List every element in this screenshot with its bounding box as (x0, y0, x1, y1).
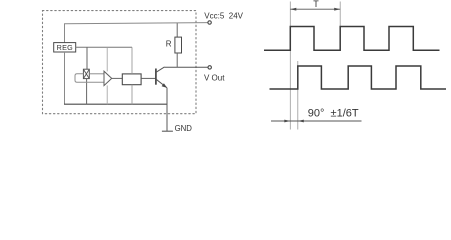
phase extension line B (297, 61, 299, 130)
resistor R (175, 37, 182, 53)
phase extension line A (289, 2, 291, 130)
svg-text:V Out: V Out (204, 73, 225, 82)
Vcc rail wire (65, 23, 208, 25)
wire hall bottom (86, 79, 88, 105)
wire amp input upper (89, 73, 104, 75)
regulator REG (54, 43, 76, 52)
svg-text:R: R (166, 40, 172, 49)
schmitt trigger U1 (122, 74, 141, 85)
Vcc terminal (208, 21, 211, 24)
op-amp A1 (104, 71, 112, 85)
wire amp output (112, 77, 123, 79)
svg-text:90° ±1/6T: 90° ±1/6T (308, 108, 359, 120)
V Out terminal (208, 66, 211, 69)
svg-text:REG: REG (57, 43, 74, 52)
hall element X1 (83, 69, 89, 78)
wire schmitt supply (131, 47, 133, 74)
ground rail wire (64, 103, 167, 105)
wire collector to V Out (165, 66, 208, 68)
wire REG output (76, 46, 132, 48)
svg-text:T: T (313, 0, 319, 9)
transistor Q1 (156, 67, 167, 88)
svg-text:Vcc:5 24V: Vcc:5 24V (204, 12, 243, 21)
T dimension tick right (339, 2, 341, 27)
wire resistor top (176, 23, 178, 37)
wire emitter to GND (166, 88, 168, 132)
ground (162, 130, 173, 132)
wire REG top (64, 24, 66, 43)
wire REG bottom to ground rail (64, 52, 66, 104)
waveform A trace (264, 27, 440, 51)
waveform B trace (270, 66, 447, 89)
wire amp supply (106, 47, 108, 71)
svg-text:GND: GND (175, 124, 193, 133)
wire hall supply drop (86, 47, 88, 69)
wire hall feedback loop (75, 74, 104, 83)
wire schmitt output to base (141, 77, 156, 79)
wire resistor bottom (176, 53, 178, 67)
90 degree dimension line (271, 120, 362, 123)
T dimension line (290, 8, 340, 11)
dashed enclosure box (43, 11, 197, 114)
wire amp ground (106, 85, 108, 104)
wire schmitt ground (131, 85, 133, 105)
